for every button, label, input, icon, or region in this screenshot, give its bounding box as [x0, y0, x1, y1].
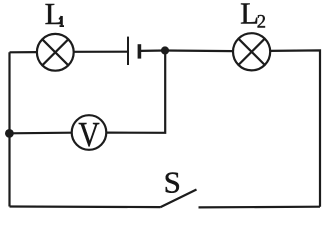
battery negative short plate [138, 44, 142, 58]
wire bottom left segment [10, 205, 161, 208]
wire left rail [8, 52, 10, 206]
battery positive long plate [127, 37, 129, 65]
label L1 subscript 1 [59, 16, 64, 26]
svg-text:S: S [164, 165, 181, 200]
switch S blade (open) [161, 190, 197, 208]
wire node B to voltmeter [10, 132, 72, 135]
lamp L1 [37, 34, 74, 71]
node B junction dot on left rail [5, 129, 14, 138]
node A junction dot [161, 46, 169, 54]
lamp L2 [233, 33, 270, 70]
wire lamp L1 to battery [74, 51, 128, 53]
wire battery to node A [141, 49, 165, 52]
wire lamp L2 to right rail [270, 50, 320, 206]
wire node A to lamp L2 [165, 49, 233, 52]
wire bottom right segment [199, 206, 321, 209]
label V of voltmeter [78, 115, 99, 154]
wire top-left corner to lamp L1 [10, 51, 38, 53]
svg-text:2: 2 [257, 13, 266, 33]
svg-text:V: V [78, 115, 99, 154]
wire voltmeter to node A riser [107, 51, 166, 133]
voltmeter V circle [72, 115, 107, 150]
